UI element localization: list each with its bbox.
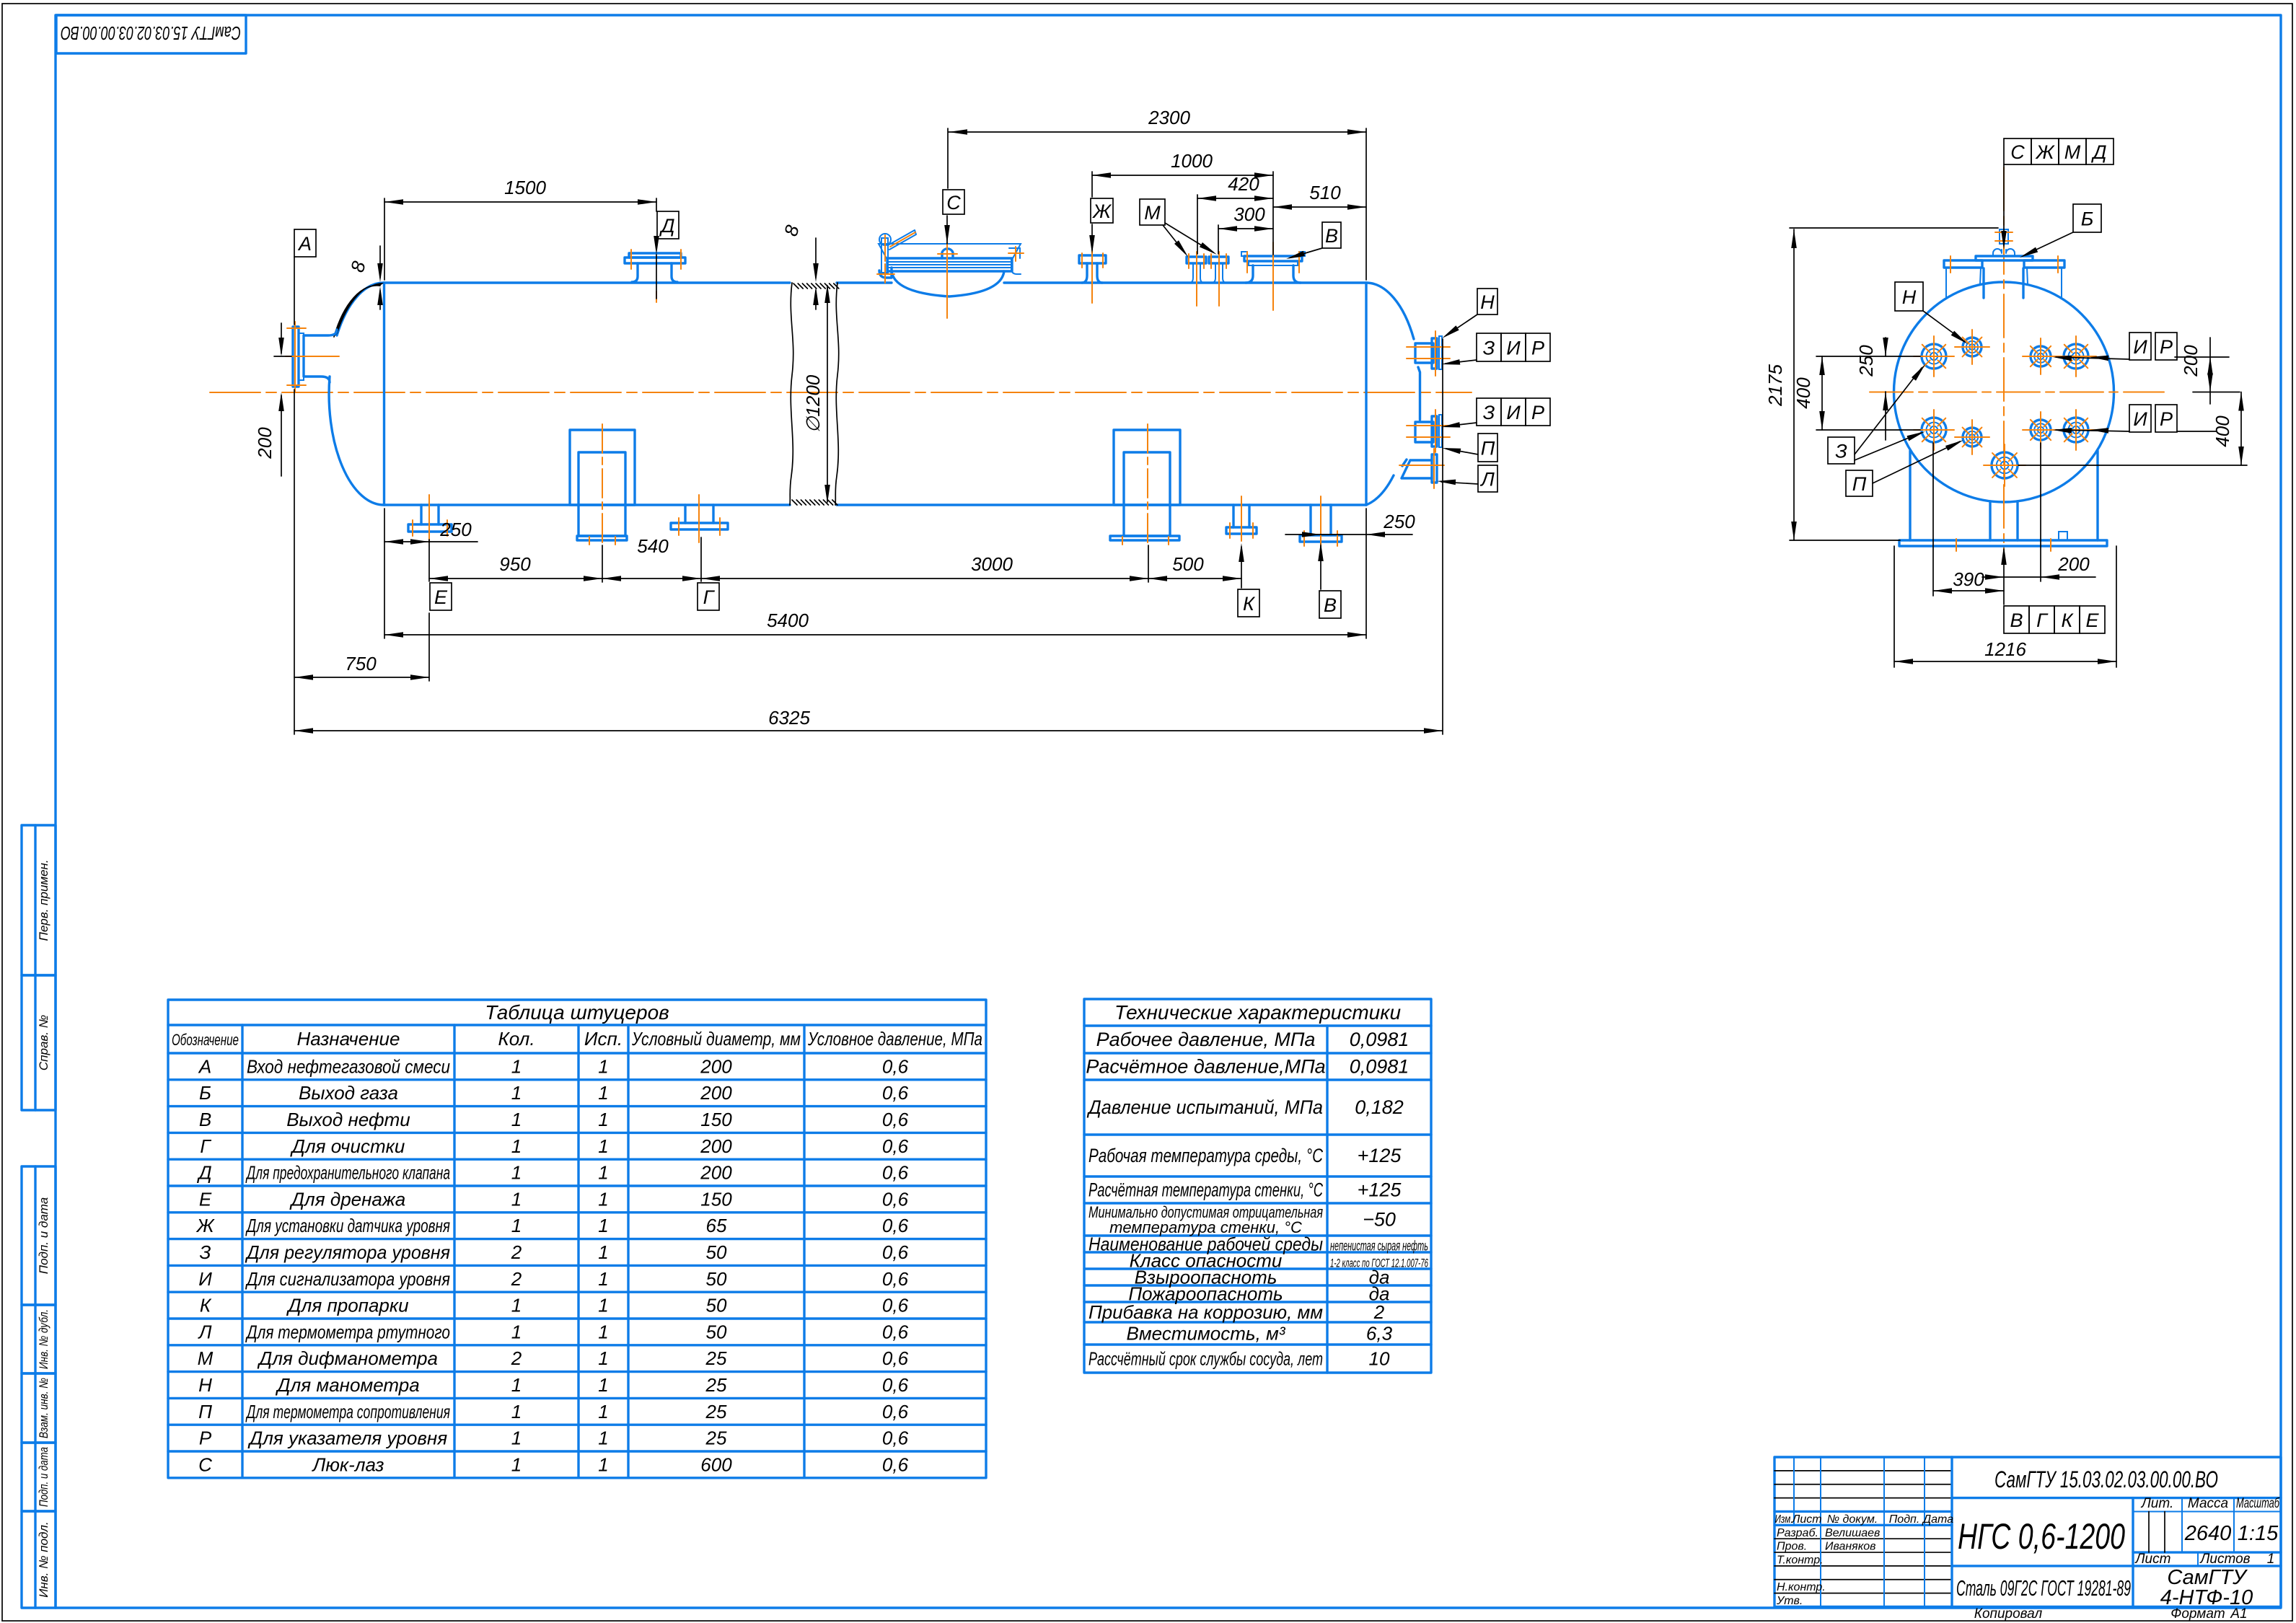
svg-text:250: 250 bbox=[439, 519, 472, 540]
left head inner wall line bbox=[334, 286, 380, 337]
svg-text:0,6: 0,6 bbox=[882, 1082, 909, 1104]
svg-text:200: 200 bbox=[700, 1082, 732, 1104]
svg-text:З: З bbox=[200, 1241, 211, 1263]
break wall hatch bottom bbox=[792, 500, 797, 505]
end flange Р lower bbox=[2056, 410, 2096, 450]
nozzle М1 flange bbox=[1187, 257, 1206, 263]
svg-text:Для дренажа: Для дренажа bbox=[289, 1188, 406, 1210]
end view Д flange plate bbox=[1976, 256, 2033, 260]
svg-text:Н: Н bbox=[1480, 291, 1495, 313]
label Ж bbox=[1091, 198, 1113, 223]
svg-text:Подп. и дата: Подп. и дата bbox=[37, 1447, 50, 1507]
svg-text:Утв.: Утв. bbox=[1776, 1595, 1803, 1607]
nozzle В top neck bbox=[1246, 265, 1301, 283]
label П end view bbox=[1846, 470, 1873, 496]
labels С Ж М Д end view bbox=[2004, 138, 2031, 164]
end view axis centerlines bbox=[1870, 392, 2164, 393]
svg-text:Б: Б bbox=[199, 1082, 211, 1104]
dim 750 bbox=[294, 677, 429, 678]
svg-text:950: 950 bbox=[499, 553, 531, 575]
manhole С cover bbox=[879, 244, 1021, 258]
break wall hatch top bbox=[793, 283, 799, 289]
svg-text:1: 1 bbox=[598, 1321, 608, 1342]
svg-text:Для термометра сопротивления: Для термометра сопротивления bbox=[245, 1401, 450, 1422]
svg-text:Лист: Лист bbox=[2134, 1552, 2171, 1567]
svg-text:1: 1 bbox=[598, 1374, 608, 1396]
svg-text:Для установки датчика уровня: Для установки датчика уровня bbox=[245, 1215, 450, 1236]
svg-text:Велишаев: Велишаев bbox=[1825, 1527, 1880, 1539]
svg-text:5400: 5400 bbox=[767, 610, 809, 631]
end view legs bbox=[1909, 451, 1911, 540]
lower cluster flange plates bbox=[1432, 416, 1437, 447]
svg-text:С: С bbox=[198, 1453, 212, 1475]
svg-text:Н.контр.: Н.контр. bbox=[1777, 1581, 1826, 1593]
svg-text:0,6: 0,6 bbox=[882, 1215, 909, 1236]
svg-text:З: З bbox=[1483, 338, 1495, 359]
svg-text:1: 1 bbox=[511, 1453, 522, 1475]
svg-text:Л: Л bbox=[198, 1321, 212, 1342]
nozzle В bottom neck bbox=[1311, 505, 1331, 535]
svg-text:Технические характеристики: Технические характеристики bbox=[1114, 1001, 1401, 1024]
labels З И Р lower bbox=[1477, 398, 1501, 426]
svg-text:1: 1 bbox=[511, 1109, 522, 1130]
manhole С dished bottom bbox=[892, 271, 1004, 296]
svg-text:П: П bbox=[1481, 438, 1495, 459]
svg-text:Инв. № подл.: Инв. № подл. bbox=[37, 1521, 50, 1598]
svg-text:Рабочая температура среды, °С: Рабочая температура среды, °С bbox=[1088, 1145, 1323, 1166]
svg-text:Е: Е bbox=[2085, 610, 2099, 631]
svg-text:0,6: 0,6 bbox=[882, 1268, 909, 1290]
svg-text:1: 1 bbox=[511, 1215, 522, 1236]
svg-text:А: А bbox=[198, 1055, 211, 1077]
svg-text:0,6: 0,6 bbox=[882, 1135, 909, 1157]
svg-text:1: 1 bbox=[511, 1162, 522, 1184]
svg-text:Выход газа: Выход газа bbox=[299, 1082, 398, 1104]
end view nozzle Б neck bbox=[1984, 268, 2023, 298]
svg-text:+125: +125 bbox=[1358, 1145, 1402, 1166]
svg-text:0,6: 0,6 bbox=[882, 1401, 909, 1422]
svg-text:Условный диаметр, мм: Условный диаметр, мм bbox=[631, 1028, 801, 1050]
svg-text:0,6: 0,6 bbox=[882, 1188, 909, 1210]
nozzle Е neck bbox=[421, 505, 439, 524]
left elliptical head bbox=[329, 283, 384, 505]
svg-text:0,6: 0,6 bbox=[882, 1374, 909, 1396]
svg-text:Е: Е bbox=[199, 1188, 212, 1210]
svg-text:Для очистки: Для очистки bbox=[290, 1135, 405, 1157]
svg-text:400: 400 bbox=[1793, 377, 1814, 409]
technical characteristics table bbox=[1084, 999, 1431, 1373]
nozzle Л bbox=[1402, 460, 1432, 478]
end view dim 200 bottom bbox=[1982, 576, 2095, 578]
svg-text:0,6: 0,6 bbox=[882, 1295, 909, 1316]
svg-text:Для сигнализатора уровня: Для сигнализатора уровня bbox=[245, 1268, 450, 1290]
svg-text:1: 1 bbox=[511, 1188, 522, 1210]
bottom chain dim line 950/540/3000/500 bbox=[429, 578, 1241, 579]
dim 5400 bbox=[384, 634, 1366, 635]
svg-text:65: 65 bbox=[706, 1215, 727, 1236]
svg-text:Для дифманометра: Для дифманометра bbox=[257, 1347, 438, 1369]
end view dim 390 bbox=[1932, 443, 1934, 596]
end view base plate bbox=[1899, 540, 2107, 546]
svg-text:200: 200 bbox=[700, 1162, 732, 1184]
svg-text:1: 1 bbox=[598, 1453, 608, 1475]
svg-text:Р: Р bbox=[2160, 336, 2173, 358]
svg-text:200: 200 bbox=[700, 1055, 732, 1077]
svg-text:И: И bbox=[2133, 408, 2147, 430]
svg-text:−50: −50 bbox=[1363, 1209, 1396, 1231]
svg-text:М: М bbox=[2064, 141, 2081, 163]
svg-text:П: П bbox=[198, 1401, 212, 1422]
svg-text:2: 2 bbox=[511, 1347, 522, 1369]
label М bbox=[1140, 199, 1165, 225]
svg-text:390: 390 bbox=[1953, 568, 1984, 590]
svg-text:Ж: Ж bbox=[1091, 201, 1112, 222]
left margin label boxes bbox=[22, 825, 56, 975]
svg-text:Е: Е bbox=[434, 586, 448, 608]
svg-text:600: 600 bbox=[700, 1453, 732, 1475]
svg-text:1: 1 bbox=[511, 1295, 522, 1316]
svg-text:6325: 6325 bbox=[768, 707, 810, 729]
svg-text:2: 2 bbox=[511, 1241, 522, 1263]
label Д bbox=[657, 211, 679, 239]
svg-text:0,6: 0,6 bbox=[882, 1453, 909, 1475]
label П side bbox=[1478, 434, 1497, 462]
svg-text:НГС 0,6-1200: НГС 0,6-1200 bbox=[1958, 1516, 2125, 1557]
dim 200 (А nozzle offset) bbox=[274, 356, 291, 357]
dim 1000 bbox=[1092, 175, 1273, 176]
end flange З lower bbox=[1914, 410, 1954, 450]
svg-text:Для указателя уровня: Для указателя уровня bbox=[247, 1428, 447, 1449]
nozzle Н and З upper cluster neck bbox=[1415, 343, 1433, 363]
svg-text:Давление испытаний, МПа: Давление испытаний, МПа bbox=[1086, 1096, 1323, 1118]
svg-text:Таблица штуцеров: Таблица штуцеров bbox=[485, 1001, 669, 1024]
label Б bbox=[2073, 204, 2101, 232]
end flange В Г К Е bottom bbox=[1984, 444, 2026, 486]
svg-text:Пров.: Пров. bbox=[1777, 1541, 1807, 1553]
svg-text:0,6: 0,6 bbox=[882, 1109, 909, 1130]
svg-text:И: И bbox=[2133, 336, 2147, 358]
manhole С flange plates bbox=[887, 258, 1012, 271]
svg-text:Расчётная температура стенки,: Расчётная температура стенки, °С bbox=[1088, 1179, 1323, 1201]
svg-text:150: 150 bbox=[700, 1188, 732, 1210]
label З end view bbox=[1828, 437, 1855, 464]
svg-text:0,6: 0,6 bbox=[882, 1055, 909, 1077]
svg-text:1: 1 bbox=[598, 1347, 608, 1369]
end flange Н bbox=[1955, 330, 1989, 364]
svg-text:2640: 2640 bbox=[2184, 1522, 2232, 1545]
label В top bbox=[1322, 222, 1341, 248]
svg-text:Р: Р bbox=[199, 1428, 212, 1449]
label Н bbox=[1477, 289, 1497, 315]
svg-text:В: В bbox=[1325, 225, 1338, 247]
svg-text:З: З bbox=[1483, 402, 1495, 423]
top-left reference stamp (rotated designation) bbox=[56, 15, 246, 53]
nozzle Г flange bbox=[671, 523, 728, 529]
end flange П bbox=[1955, 420, 1989, 454]
svg-text:1: 1 bbox=[598, 1162, 608, 1184]
end view vessel circle bbox=[1894, 282, 2114, 502]
dim 250 bottom-right bbox=[1285, 534, 1412, 535]
manhole С center stud bbox=[942, 249, 953, 258]
svg-text:1: 1 bbox=[511, 1401, 522, 1422]
nozzle Н/З upper flange plates bbox=[1432, 338, 1437, 369]
svg-text:А: А bbox=[297, 233, 312, 255]
svg-text:И: И bbox=[1506, 402, 1521, 423]
svg-text:50: 50 bbox=[706, 1268, 727, 1290]
svg-text:Н: Н bbox=[1902, 286, 1917, 308]
upper cluster centerlines bbox=[1407, 346, 1450, 348]
svg-text:Лист: Лист bbox=[1791, 1513, 1821, 1526]
svg-text:10: 10 bbox=[1369, 1348, 1390, 1370]
svg-text:25: 25 bbox=[705, 1428, 727, 1449]
end view dim 2175 bbox=[1793, 229, 1795, 540]
label Е bbox=[430, 583, 452, 610]
svg-text:0,6: 0,6 bbox=[882, 1321, 909, 1342]
svg-text:0,0981: 0,0981 bbox=[1350, 1029, 1409, 1050]
dim ф1200 bbox=[827, 286, 828, 502]
svg-text:1216: 1216 bbox=[1984, 638, 2026, 660]
nozzle В bottom flange bbox=[1300, 535, 1342, 542]
svg-text:Ж: Ж bbox=[2035, 141, 2056, 163]
svg-text:Для термометра ртутного: Для термометра ртутного bbox=[245, 1321, 450, 1342]
svg-text:СамГТУ 15.03.02.03.00.00.ВО: СамГТУ 15.03.02.03.00.00.ВО bbox=[1994, 1466, 2218, 1492]
svg-text:0,6: 0,6 bbox=[882, 1241, 909, 1263]
svg-text:750: 750 bbox=[345, 653, 377, 674]
end view dim 250 left bbox=[1885, 338, 1886, 356]
svg-text:М: М bbox=[1144, 202, 1161, 224]
svg-text:Вместимость, м³: Вместимость, м³ bbox=[1127, 1323, 1286, 1345]
nozzle М1 neck bbox=[1189, 263, 1204, 283]
svg-text:непенистая сырая нефть: непенистая сырая нефть bbox=[1330, 1239, 1428, 1254]
svg-text:540: 540 bbox=[637, 535, 669, 557]
leader К bbox=[1241, 547, 1242, 588]
svg-text:Обозначение: Обозначение bbox=[172, 1031, 239, 1049]
svg-text:Назначение: Назначение bbox=[297, 1028, 400, 1050]
vessel shell top line bbox=[384, 281, 791, 283]
labels В Г К Е end view bbox=[2004, 606, 2029, 633]
svg-text:200: 200 bbox=[2180, 345, 2202, 377]
vessel shell bottom line bbox=[384, 503, 791, 506]
manhole С davit post bbox=[881, 238, 888, 273]
title block (основная надпись) bbox=[1774, 1457, 2281, 1609]
svg-text:50: 50 bbox=[706, 1241, 727, 1263]
svg-text:1: 1 bbox=[598, 1241, 608, 1263]
svg-text:1: 1 bbox=[598, 1188, 608, 1210]
svg-text:Г: Г bbox=[2036, 610, 2049, 631]
end view С manhole flange wings bbox=[1944, 260, 1982, 268]
svg-text:Д: Д bbox=[196, 1162, 211, 1184]
svg-text:1: 1 bbox=[598, 1135, 608, 1157]
nozzle Ж flange bbox=[1079, 255, 1106, 263]
svg-text:Выход нефти: Выход нефти bbox=[286, 1109, 410, 1130]
nozzle Д neck bbox=[632, 263, 677, 282]
svg-text:1: 1 bbox=[598, 1295, 608, 1316]
svg-text:Б: Б bbox=[2081, 208, 2094, 230]
label Л side bbox=[1478, 465, 1497, 492]
svg-text:Люк-лаз: Люк-лаз bbox=[312, 1453, 384, 1475]
left head weld hatch bbox=[334, 283, 384, 337]
svg-text:Изм.: Изм. bbox=[1775, 1513, 1793, 1526]
label К bbox=[1238, 589, 1259, 617]
end flange И upper bbox=[2023, 338, 2059, 374]
svg-text:Подп. и дата: Подп. и дата bbox=[37, 1197, 50, 1274]
svg-text:2: 2 bbox=[1373, 1301, 1385, 1323]
svg-text:2: 2 bbox=[511, 1268, 522, 1290]
nozzle table (Таблица штуцеров) bbox=[168, 1000, 986, 1478]
label Г bbox=[698, 583, 719, 610]
svg-text:С: С bbox=[2010, 141, 2025, 163]
svg-text:Взам. инв. №: Взам. инв. № bbox=[37, 1378, 50, 1438]
svg-text:1: 1 bbox=[2267, 1552, 2275, 1567]
svg-text:0,6: 0,6 bbox=[882, 1162, 909, 1184]
nozzle Г neck bbox=[685, 505, 713, 523]
svg-text:300: 300 bbox=[1233, 203, 1265, 225]
svg-text:0,6: 0,6 bbox=[882, 1347, 909, 1369]
svg-text:Кол.: Кол. bbox=[498, 1028, 535, 1050]
svg-text:С: С bbox=[946, 192, 961, 214]
svg-text:Для пропарки: Для пропарки bbox=[286, 1295, 408, 1316]
dim 420 bbox=[1197, 198, 1273, 199]
end flange Р upper bbox=[2056, 336, 2096, 377]
svg-text:М: М bbox=[198, 1347, 214, 1369]
svg-text:1500: 1500 bbox=[504, 177, 546, 198]
svg-text:Копировал: Копировал bbox=[1974, 1606, 2043, 1622]
nozzle М2 neck bbox=[1212, 263, 1226, 283]
end view small nozzle stack bbox=[2000, 229, 2008, 244]
svg-text:И: И bbox=[198, 1268, 212, 1290]
svg-text:СамГТУ 15.03.02.03.00.00.ВО: СамГТУ 15.03.02.03.00.00.ВО bbox=[61, 22, 241, 44]
nozzle Д flange bbox=[629, 253, 681, 258]
nozzle В top flange bbox=[1244, 256, 1302, 261]
svg-text:Лит.: Лит. bbox=[2140, 1496, 2174, 1511]
svg-text:В: В bbox=[2010, 610, 2023, 631]
svg-text:Г: Г bbox=[703, 586, 716, 608]
svg-text:А1: А1 bbox=[2230, 1606, 2247, 1622]
labels И Р right upper bbox=[2129, 333, 2151, 360]
label А bbox=[294, 229, 316, 257]
svg-text:6,3: 6,3 bbox=[1366, 1323, 1393, 1345]
svg-text:150: 150 bbox=[700, 1109, 732, 1130]
dim 2300 bbox=[949, 131, 1366, 133]
left saddle support bbox=[570, 430, 635, 505]
svg-text:250: 250 bbox=[1383, 511, 1415, 532]
nozzle Ж neck bbox=[1082, 263, 1102, 283]
end flange З upper bbox=[1914, 336, 1954, 377]
svg-text:Д: Д bbox=[2090, 141, 2106, 163]
manhole С right hinge bbox=[1009, 248, 1021, 274]
svg-text:Рабочее давление, МПа: Рабочее давление, МПа bbox=[1096, 1029, 1316, 1050]
right saddle support bbox=[1114, 430, 1180, 505]
svg-text:В: В bbox=[199, 1109, 211, 1130]
svg-text:Разраб.: Разраб. bbox=[1777, 1527, 1818, 1539]
svg-text:Сталь 09Г2С ГОСТ 19281-89: Сталь 09Г2С ГОСТ 19281-89 bbox=[1956, 1575, 2131, 1601]
nozzle М2 flange bbox=[1209, 257, 1228, 263]
svg-text:Ж: Ж bbox=[195, 1215, 216, 1236]
svg-text:+125: +125 bbox=[1358, 1179, 1402, 1201]
svg-text:1: 1 bbox=[511, 1374, 522, 1396]
svg-text:П: П bbox=[1852, 473, 1867, 495]
svg-text:Перв. примен.: Перв. примен. bbox=[37, 860, 50, 941]
label Н end view bbox=[1895, 282, 1923, 311]
svg-text:1: 1 bbox=[598, 1215, 608, 1236]
nozzle К neck bbox=[1233, 505, 1249, 527]
manhole С davit foot bbox=[879, 268, 892, 278]
end view dim 200 right bbox=[2209, 338, 2211, 404]
svg-text:1:15: 1:15 bbox=[2238, 1522, 2279, 1545]
label В bottom bbox=[1319, 591, 1341, 618]
vessel axis centerline bbox=[210, 392, 1472, 393]
svg-text:Подп.: Подп. bbox=[1889, 1513, 1920, 1526]
nozzle А centerlines bbox=[286, 356, 339, 357]
svg-text:З: З bbox=[1835, 441, 1847, 462]
svg-text:2300: 2300 bbox=[1148, 107, 1190, 128]
labels И Р right lower bbox=[2129, 405, 2151, 432]
svg-text:1: 1 bbox=[511, 1055, 522, 1077]
right elliptical head bbox=[1366, 283, 1420, 505]
svg-text:Г: Г bbox=[200, 1135, 211, 1157]
dim 6325 bbox=[294, 730, 1443, 731]
shell break wavy lines bbox=[790, 283, 793, 505]
svg-text:Р: Р bbox=[1531, 338, 1544, 359]
nozzle А neck bbox=[304, 330, 337, 382]
dim 510 bbox=[1273, 206, 1366, 208]
svg-text:Т.контр.: Т.контр. bbox=[1777, 1554, 1824, 1566]
svg-text:1: 1 bbox=[511, 1135, 522, 1157]
svg-text:3000: 3000 bbox=[971, 553, 1013, 575]
end flange И lower bbox=[2023, 412, 2059, 448]
svg-text:Справ. №: Справ. № bbox=[37, 1015, 50, 1070]
svg-text:1: 1 bbox=[511, 1321, 522, 1342]
svg-text:1: 1 bbox=[511, 1428, 522, 1449]
svg-text:Инв. № дубл.: Инв. № дубл. bbox=[37, 1309, 50, 1369]
svg-text:50: 50 bbox=[706, 1321, 727, 1342]
svg-text:Рассчётный срок службы сосуда,: Рассчётный срок службы сосуда, лет bbox=[1088, 1348, 1323, 1370]
svg-text:1: 1 bbox=[598, 1055, 608, 1077]
svg-text:1: 1 bbox=[598, 1428, 608, 1449]
svg-text:Н: Н bbox=[198, 1374, 212, 1396]
svg-text:420: 420 bbox=[1228, 173, 1259, 195]
svg-text:Прибавка на коррозию, мм: Прибавка на коррозию, мм bbox=[1088, 1301, 1323, 1323]
svg-text:25: 25 bbox=[705, 1401, 727, 1422]
svg-text:510: 510 bbox=[1309, 182, 1341, 203]
svg-text:1: 1 bbox=[598, 1401, 608, 1422]
svg-text:25: 25 bbox=[705, 1374, 727, 1396]
extension lines top bbox=[384, 198, 385, 280]
svg-text:Масштаб: Масштаб bbox=[2236, 1496, 2280, 1511]
svg-text:К: К bbox=[200, 1295, 212, 1316]
svg-text:0,182: 0,182 bbox=[1355, 1096, 1404, 1118]
svg-text:Исп.: Исп. bbox=[584, 1028, 623, 1050]
labels З И Р upper bbox=[1477, 333, 1501, 361]
svg-text:1000: 1000 bbox=[1171, 150, 1213, 172]
svg-text:К: К bbox=[1243, 593, 1256, 615]
nozzle Д centerlines bbox=[630, 250, 632, 269]
svg-text:Д: Д bbox=[659, 215, 674, 237]
base plate notch bbox=[2059, 532, 2067, 540]
svg-text:Листов: Листов bbox=[2199, 1552, 2250, 1567]
svg-text:50: 50 bbox=[706, 1295, 727, 1316]
dim 1500 bbox=[384, 201, 656, 203]
svg-text:Для регулятора уровня: Для регулятора уровня bbox=[245, 1241, 450, 1263]
dim 250 bottom-left bbox=[384, 541, 478, 542]
svg-text:1: 1 bbox=[598, 1082, 608, 1104]
svg-text:Для манометра: Для манометра bbox=[275, 1374, 419, 1396]
svg-text:Масса: Масса bbox=[2188, 1496, 2228, 1511]
svg-text:№ докум.: № докум. bbox=[1827, 1513, 1878, 1526]
svg-text:Р: Р bbox=[1531, 402, 1544, 423]
end view dim 1216 bbox=[1893, 546, 1895, 667]
dim 300 bbox=[1218, 228, 1273, 229]
